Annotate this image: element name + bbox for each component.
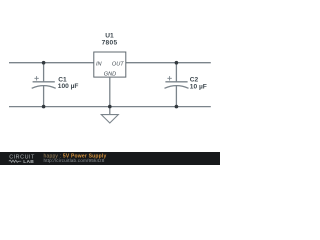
wire: bottom ground rail <box>9 106 211 108</box>
svg-text:IN: IN <box>96 62 103 68</box>
capacitor C1 <box>32 63 79 107</box>
wire: top-left rail (input to IN pin) <box>9 62 94 64</box>
node: C2 top junction <box>175 61 179 65</box>
C1 curved plate <box>32 86 56 89</box>
svg-text:OUT: OUT <box>112 62 124 68</box>
C2 plus sign <box>167 76 171 80</box>
node: C1 bottom junction <box>42 105 46 109</box>
wire: C2 top lead <box>175 63 177 82</box>
wire: GND pin lead down through rail <box>109 77 111 115</box>
wire: C2 bottom lead <box>175 86 177 107</box>
C2 top plate <box>165 81 187 83</box>
capacitor C2 <box>165 63 207 107</box>
svg-text:100 µF: 100 µF <box>58 83 79 90</box>
svg-text:U1: U1 <box>105 32 114 39</box>
watermark bar <box>0 152 220 165</box>
node: GND rail junction <box>108 105 112 109</box>
svg-text:LAB: LAB <box>23 159 34 165</box>
wire: C1 bottom lead <box>43 86 45 107</box>
C1 plus sign <box>34 76 38 80</box>
svg-text:10 µF: 10 µF <box>190 83 207 90</box>
wire: top-right rail (OUT pin to output) <box>126 62 211 64</box>
C1 top plate <box>33 81 55 83</box>
ground <box>101 115 118 123</box>
wire: C1 top lead <box>43 63 45 82</box>
node: C2 bottom junction <box>175 105 179 109</box>
C2 curved plate <box>165 86 189 89</box>
node: C1 top junction <box>42 61 46 65</box>
svg-text:GND: GND <box>104 71 116 77</box>
svg-text:7805: 7805 <box>102 39 118 46</box>
svg-text:http://circuitlab.com/95k4z8: http://circuitlab.com/95k4z8 <box>44 158 105 163</box>
op-amp U1 (7805 regulator box) <box>94 32 126 77</box>
